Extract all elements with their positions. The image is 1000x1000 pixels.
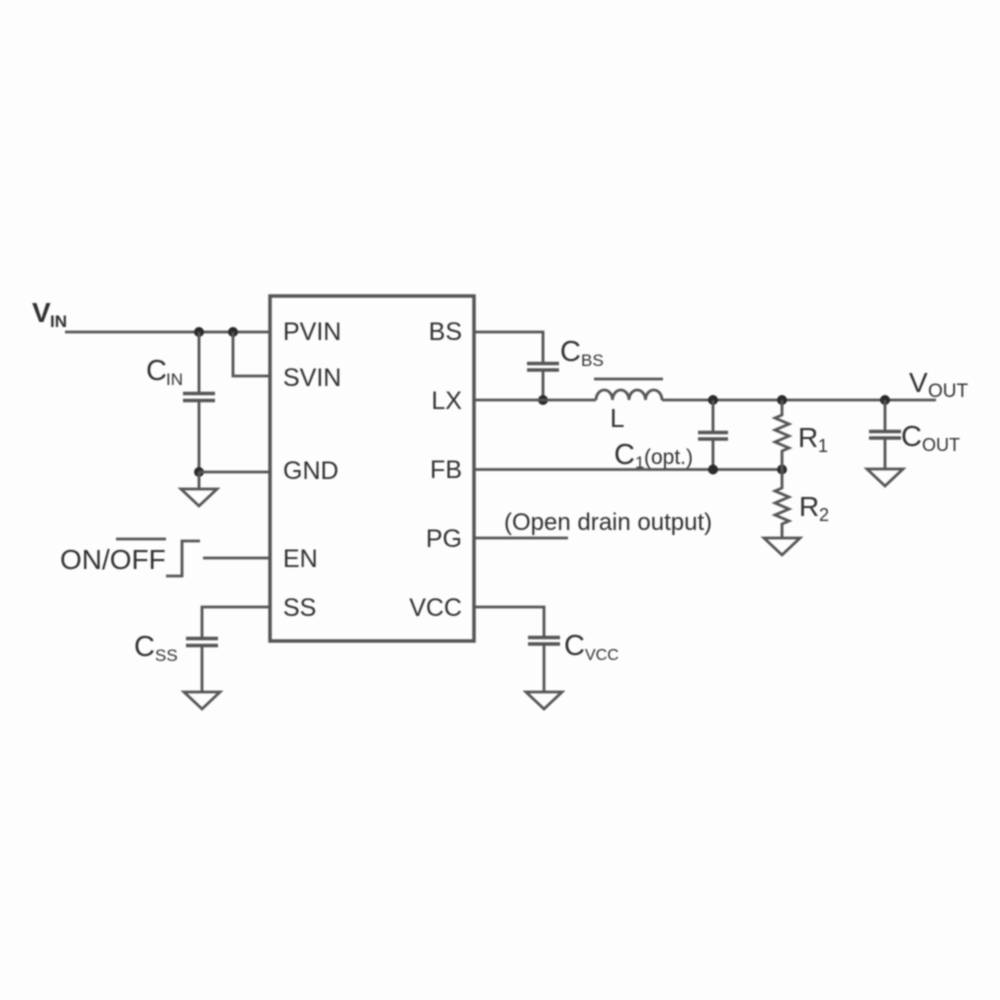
svg-text:(opt.): (opt.): [644, 446, 693, 469]
svg-text:(Open drain output): (Open drain output): [504, 509, 712, 536]
node CIN/GND junction: [194, 467, 204, 477]
ground below CVCC: [526, 692, 562, 709]
svg-text:1: 1: [818, 436, 828, 456]
svg-text:R: R: [799, 491, 819, 522]
capacitor COUT: [884, 400, 887, 431]
svg-text:PVIN: PVIN: [283, 318, 341, 346]
wire VIN to PVIN: [65, 331, 270, 334]
node R1 top junction: [777, 395, 787, 405]
capacitor C1: [712, 400, 715, 432]
node R1/R2 junction: [777, 465, 787, 475]
ground below R2: [764, 538, 800, 555]
svg-text:C: C: [564, 630, 585, 662]
svg-text:SS: SS: [155, 646, 178, 665]
svg-text:R: R: [798, 422, 818, 453]
resistor R1: [775, 400, 789, 470]
svg-text:VCC: VCC: [585, 647, 619, 664]
capacitor CIN: [198, 332, 201, 393]
svg-text:SS: SS: [283, 594, 316, 622]
svg-text:C: C: [146, 355, 167, 387]
wire FB line: [474, 468, 782, 471]
svg-text:FB: FB: [430, 456, 462, 484]
svg-text:IN: IN: [166, 370, 183, 389]
svg-text:ON/OFF: ON/OFF: [60, 544, 166, 575]
capacitor CVCC: [528, 636, 560, 640]
svg-text:C: C: [614, 439, 635, 471]
node SVIN branch junction: [228, 327, 238, 337]
ground below COUT: [867, 469, 903, 486]
svg-text:V: V: [32, 297, 51, 328]
svg-text:2: 2: [819, 505, 829, 525]
svg-text:BS: BS: [429, 318, 462, 346]
svg-text:VCC: VCC: [409, 594, 462, 622]
IC U1 body: [270, 296, 474, 641]
svg-text:SVIN: SVIN: [283, 364, 341, 392]
ground below CIN: [198, 472, 201, 489]
capacitor CBS: [527, 362, 559, 366]
ground below CSS: [184, 692, 220, 709]
node C1 top junction: [708, 395, 718, 405]
wire VCC: [474, 607, 544, 637]
wire SS: [202, 607, 270, 638]
node COUT top junction: [880, 395, 890, 405]
node CBS/LX junction: [538, 395, 548, 405]
svg-text:BS: BS: [581, 351, 604, 370]
resistor R2: [775, 470, 789, 539]
svg-text:C: C: [560, 336, 581, 368]
svg-text:V: V: [909, 367, 928, 398]
wire GND pin: [199, 471, 270, 474]
svg-text:OUT: OUT: [928, 381, 969, 402]
node C1 bottom junction: [708, 465, 718, 475]
svg-text:PG: PG: [426, 525, 462, 553]
ON/OFF step symbol: [166, 541, 200, 576]
wire PG: [474, 537, 568, 540]
wire SVIN branch: [233, 332, 270, 376]
capacitor CSS: [186, 637, 218, 641]
wire EN: [203, 557, 270, 560]
ON/OFF overline: [116, 538, 166, 541]
wire output line: [662, 399, 936, 402]
svg-text:OUT: OUT: [922, 435, 960, 455]
svg-text:IN: IN: [50, 312, 67, 331]
wire BS: [474, 332, 543, 363]
svg-text:EN: EN: [283, 545, 318, 573]
svg-text:GND: GND: [283, 457, 339, 485]
svg-text:C: C: [901, 421, 922, 453]
wire LX: [474, 399, 596, 402]
svg-text:L: L: [610, 403, 624, 433]
svg-text:C: C: [134, 631, 155, 663]
inductor L: [594, 378, 663, 381]
node CIN top junction: [194, 327, 204, 337]
svg-text:LX: LX: [431, 387, 462, 415]
